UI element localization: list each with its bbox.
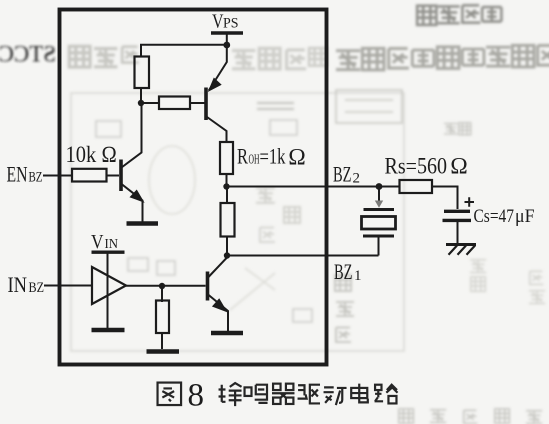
wire Cs to ground <box>457 220 459 244</box>
svg-text:BZ: BZ <box>29 170 43 186</box>
svg-text:V: V <box>91 232 104 253</box>
wire IN input <box>44 285 92 287</box>
capacitor Cs plus sign <box>465 197 475 206</box>
ground G2 <box>92 328 125 333</box>
svg-text:Cs=47: Cs=47 <box>474 206 515 227</box>
transistor Q3 (NPN, output) <box>208 258 229 332</box>
wire buzzer to BZ1 line <box>378 237 380 256</box>
wire R4 to node <box>226 236 228 256</box>
svg-text:Ω: Ω <box>288 145 306 171</box>
svg-text:BZ: BZ <box>334 259 353 284</box>
svg-text:IN: IN <box>8 272 28 297</box>
buzzer BZ bottom plate <box>363 235 394 238</box>
resistor R3 <box>156 301 169 334</box>
svg-text:R: R <box>237 144 248 169</box>
IC outline box <box>60 10 327 365</box>
ground G1 <box>127 221 159 226</box>
svg-text:V: V <box>212 11 224 33</box>
buzzer BZ body <box>362 217 396 230</box>
svg-text:Ω: Ω <box>450 154 468 180</box>
bleed text line 2 inside box left <box>69 46 138 67</box>
transistor Q1 (PNP) <box>206 45 227 142</box>
wire VPS to R1 <box>141 45 227 57</box>
resistor R1 <box>135 57 150 89</box>
bleed text line 1 (mirrored heading) <box>417 5 501 25</box>
buzzer BZ piezo arrow <box>378 189 380 201</box>
node BZ1 <box>224 252 230 258</box>
wire VPS stub <box>226 35 228 46</box>
power rail VPS bar <box>211 31 243 34</box>
bleed bottom strip <box>399 409 542 424</box>
bleed box top right <box>336 90 402 123</box>
caption char ming <box>245 385 268 403</box>
node VPS junction <box>223 42 230 49</box>
caption char feng <box>219 383 242 406</box>
ground G4 <box>211 331 243 336</box>
wire R5 to Q2 base <box>107 175 120 177</box>
svg-text:OH: OH <box>249 152 260 167</box>
resistor R5 (10k) <box>72 169 107 182</box>
svg-text:8: 8 <box>188 378 205 414</box>
wire BZ2 node to R4 <box>226 187 228 204</box>
wire R1 to node <box>140 87 142 103</box>
wire BZ2 line <box>227 186 400 188</box>
wire node to R2 <box>141 102 159 104</box>
resistor ROH <box>220 142 233 174</box>
wire R3 to ground <box>161 333 163 349</box>
wire VIN vertical <box>107 252 109 328</box>
capacitor Cs bottom plate <box>443 219 472 222</box>
wire BZ1 line <box>227 255 379 257</box>
caption char dian (electric) <box>351 384 368 403</box>
resistor R2 <box>159 97 190 110</box>
wire buffer output <box>126 285 206 287</box>
power rail VIN bar <box>92 250 125 253</box>
wire ROH to BZ2 node <box>226 174 228 187</box>
wire R2 to Q1 base <box>190 102 205 104</box>
bleed frame of reverse-side figure <box>71 93 404 351</box>
svg-text:1: 1 <box>354 268 362 284</box>
caption char qu (drive) <box>298 385 320 404</box>
node BZ2 <box>223 183 229 189</box>
resistor Rs <box>400 180 433 193</box>
svg-text:EN: EN <box>7 162 28 187</box>
svg-text:10k Ω: 10k Ω <box>66 142 118 167</box>
svg-text:μF: μF <box>515 206 535 227</box>
svg-text:IN: IN <box>105 236 119 251</box>
svg-text:Rs=560: Rs=560 <box>385 154 448 179</box>
buffer U1 triangle <box>92 267 126 304</box>
node buffer output <box>159 283 165 289</box>
wire EN input <box>43 175 72 177</box>
node R1/Q2 collector <box>138 100 144 106</box>
capacitor Cs top plate <box>444 210 470 213</box>
transistor Q2 (NPN, EN input) <box>121 103 143 222</box>
caption char lu (road) <box>375 385 398 404</box>
resistor R4 <box>221 203 235 237</box>
ground G5 earth <box>446 245 476 255</box>
bleed small figures inside box <box>96 103 312 322</box>
svg-text:PS: PS <box>223 16 239 32</box>
node Rs junction <box>376 183 383 190</box>
bleed text line 2 inside box middle <box>232 48 327 69</box>
bleed text line 2 right of box <box>336 45 549 70</box>
svg-text:STCC: STCC <box>0 42 56 67</box>
svg-text:2: 2 <box>353 171 361 187</box>
bleed small figures right side <box>335 123 545 342</box>
caption char tu (figure) <box>158 383 182 405</box>
svg-text:=1k: =1k <box>260 144 286 169</box>
buzzer BZ top plate <box>364 208 395 211</box>
svg-text:BZ: BZ <box>29 280 45 296</box>
ground G3 <box>147 349 180 354</box>
svg-text:BZ: BZ <box>333 162 352 187</box>
caption char qi (device) <box>272 384 294 404</box>
wire Rs to Cs <box>432 187 458 210</box>
wire node to R3 <box>161 286 163 302</box>
caption char dong (move) <box>324 387 347 405</box>
